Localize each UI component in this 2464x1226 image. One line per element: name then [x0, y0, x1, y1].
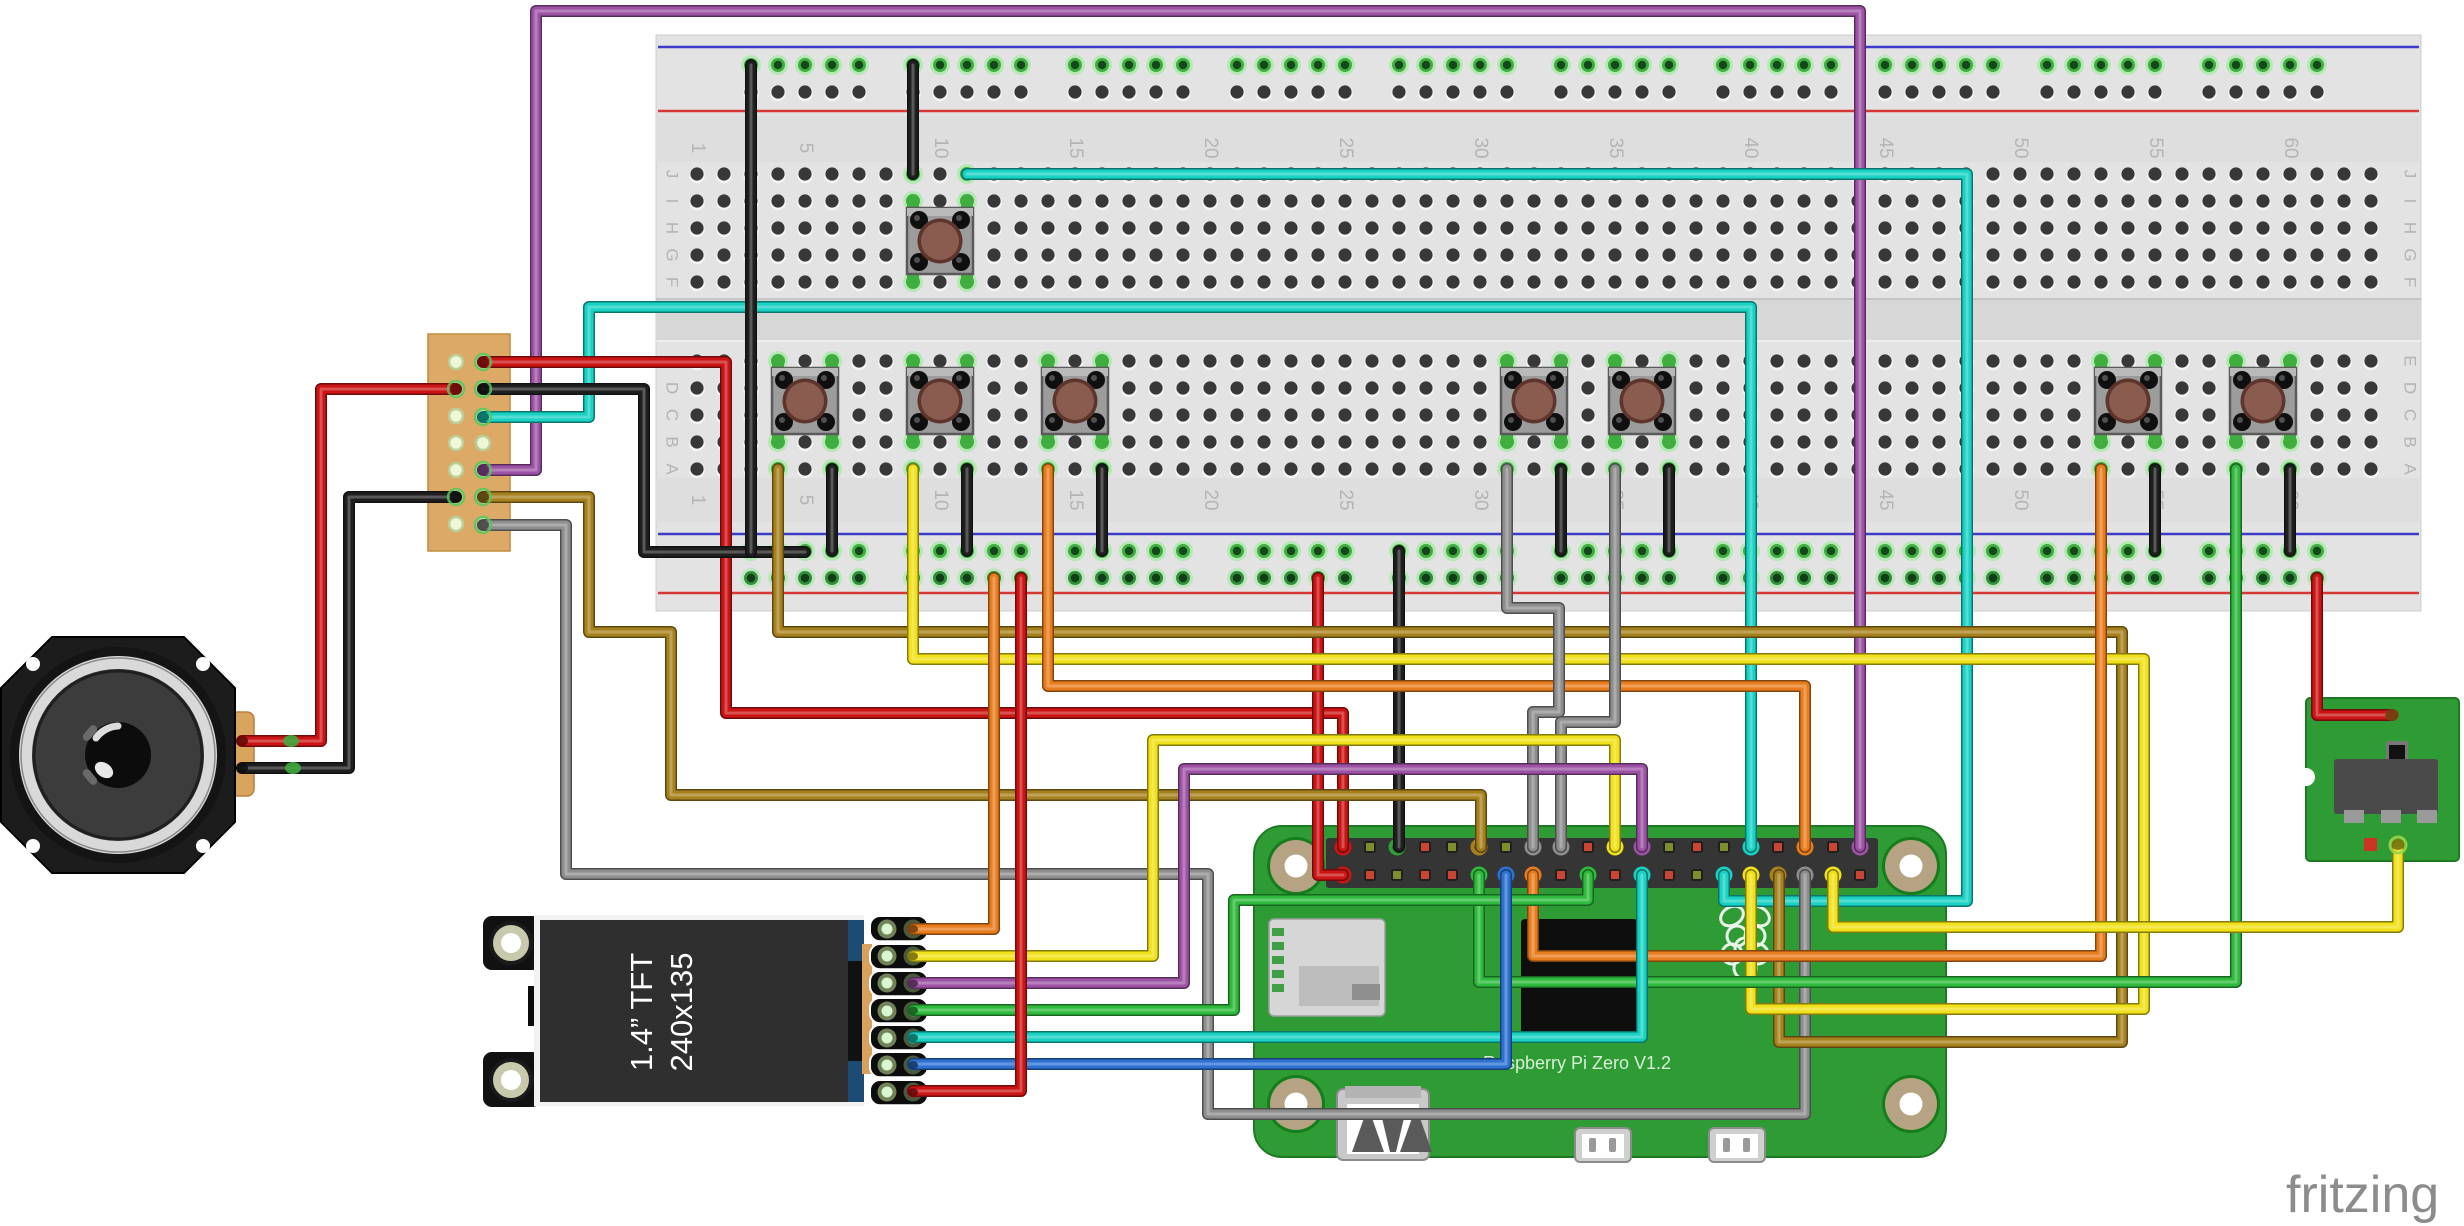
svg-text:20: 20 — [1200, 489, 1221, 510]
svg-text:F: F — [2401, 277, 2420, 287]
pushbutton S7 — [2095, 355, 2161, 447]
wire yellow switch board to Pi GPIO pin k18 — [1833, 845, 2398, 927]
wire gray breakout to Pi GPIO pin k17 bottom — [483, 525, 1805, 1114]
svg-text:35: 35 — [1605, 137, 1626, 158]
svg-text:30: 30 — [1470, 137, 1491, 158]
svg-text:B: B — [2401, 436, 2420, 447]
wire orange button S4 to Pi GPIO pin k17 top — [1048, 469, 1805, 847]
svg-text:15: 15 — [1065, 489, 1086, 510]
svg-text:1: 1 — [687, 495, 708, 506]
wire black speaker- to breakout — [242, 497, 456, 768]
wire red breakout to Pi GPIO pin k0 top — [483, 362, 1343, 847]
svg-text:30: 30 — [1470, 489, 1491, 510]
wire red speaker+ to breakout — [242, 389, 456, 741]
svg-text:I: I — [2401, 199, 2420, 204]
wire red TFT pin7 to bottom rail — [913, 578, 1021, 1091]
svg-text:5: 5 — [795, 143, 816, 154]
svg-text:240x135: 240x135 — [664, 953, 699, 1072]
svg-text:A: A — [2401, 463, 2420, 475]
svg-text:D: D — [2401, 382, 2420, 394]
svg-text:J: J — [663, 170, 682, 179]
svg-text:50: 50 — [2010, 137, 2031, 158]
speaker SPK1 — [1, 637, 235, 873]
TFT display module — [483, 915, 928, 1107]
breadboard labels — [663, 137, 2420, 510]
svg-text:45: 45 — [1875, 489, 1896, 510]
wire black jumper row A to rail #2 — [961, 469, 973, 551]
wire cyan breakout to Pi GPIO pin k15 — [483, 307, 1751, 847]
wire green button S8 to Pi GPIO pin k5 bottom — [1479, 469, 2236, 982]
slide switch board — [2297, 698, 2459, 861]
svg-text:20: 20 — [1200, 137, 1221, 158]
wire black top rail to bottom rail — [745, 65, 757, 552]
svg-text:G: G — [2401, 248, 2420, 261]
pushbutton S3 — [907, 355, 973, 447]
svg-text:15: 15 — [1065, 137, 1086, 158]
svg-text:1.4” TFT: 1.4” TFT — [624, 953, 659, 1071]
wire dark-yellow button S2 to Pi GPIO pin k16 — [778, 469, 2122, 1042]
connection points — [236, 354, 2406, 1096]
pushbutton S8 — [2230, 355, 2296, 447]
wire purple breakout to Pi GPIO pin k19 — [483, 11, 1860, 847]
pushbutton S5 — [1501, 355, 1567, 447]
svg-text:H: H — [663, 222, 682, 234]
wire orange TFT pin1 to bottom rail — [913, 578, 994, 929]
pushbutton S4 — [1042, 355, 1108, 447]
svg-text:55: 55 — [2145, 137, 2166, 158]
wire black jumper row A to rail #4 — [1555, 469, 1567, 551]
breakout pin board — [428, 334, 510, 551]
pushbutton S6 — [1609, 355, 1675, 447]
svg-text:25: 25 — [1335, 137, 1356, 158]
wire gray button S6 to Pi GPIO pin k8 top — [1561, 469, 1615, 847]
svg-text:25: 25 — [1335, 489, 1356, 510]
wire cyan TFT pin5 to Pi GPIO pin k11 bottom — [913, 875, 1642, 1037]
svg-text:H: H — [2401, 222, 2420, 234]
svg-text:B: B — [663, 436, 682, 447]
svg-text:F: F — [663, 277, 682, 287]
svg-text:A: A — [663, 463, 682, 475]
svg-text:10: 10 — [930, 489, 951, 510]
wire gray button S5 to Pi GPIO pin k7 top — [1507, 469, 1559, 847]
svg-text:fritzing: fritzing — [2286, 1166, 2439, 1224]
svg-text:C: C — [2401, 409, 2420, 421]
svg-text:E: E — [2401, 355, 2420, 366]
wire purple TFT pin3 to Pi GPIO pin k11 top — [913, 769, 1642, 983]
pushbutton S2 — [772, 355, 838, 447]
wire red rail to Pi GPIO pin k0 bottom — [1318, 578, 1343, 875]
svg-text:I: I — [663, 199, 682, 204]
svg-text:10: 10 — [930, 137, 951, 158]
svg-text:J: J — [2401, 170, 2420, 179]
svg-text:45: 45 — [1875, 137, 1896, 158]
svg-text:5: 5 — [795, 495, 816, 506]
svg-text:60: 60 — [2280, 137, 2301, 158]
wire yellow TFT pin2 to Pi GPIO pin k10 — [913, 740, 1615, 956]
GPIO header — [1326, 838, 1878, 888]
breadboard — [656, 35, 2421, 611]
wire black bottom rail to Pi GPIO pin k2 — [1393, 551, 1405, 847]
wire black jumper row A to rail #6 — [2149, 469, 2161, 551]
wire black jumper row A to rail #3 — [1096, 469, 1108, 551]
wire blue TFT pin6 to Pi GPIO pin k6 — [913, 875, 1506, 1064]
wire cyan breadboard J11 to Pi GPIO pin k14 — [967, 174, 1967, 901]
breadboard main grid holes — [689, 164, 2379, 479]
wire orange button S7 to Pi GPIO pin k7 bottom — [1533, 469, 2101, 956]
wire black jumper row A to rail #7 — [2284, 469, 2296, 551]
wire yellow button S3 to Pi GPIO pin k15 bottom — [913, 469, 2144, 1009]
Raspberry Pi Zero — [1254, 826, 1946, 1162]
wire black jumper row A to rail #5 — [1663, 469, 1675, 551]
wire green TFT pin4 to Pi GPIO pin k9 — [913, 875, 1588, 1010]
wire dark-yellow breakout to Pi GPIO pin k5 top — [483, 497, 1481, 847]
pushbutton S1 — [907, 195, 973, 287]
svg-text:C: C — [663, 409, 682, 421]
svg-text:D: D — [663, 382, 682, 394]
speaker terminal block — [226, 712, 254, 796]
wire black breakout to bottom rail — [483, 389, 805, 552]
svg-text:1: 1 — [687, 143, 708, 154]
wire red rail to switch board — [2317, 578, 2392, 715]
breadboard power rails — [741, 55, 2327, 588]
wire black top rail to row J — [907, 65, 919, 174]
svg-text:50: 50 — [2010, 489, 2031, 510]
svg-text:40: 40 — [1740, 137, 1761, 158]
wire black jumper row A to rail #1 — [826, 469, 838, 551]
svg-text:G: G — [663, 248, 682, 261]
